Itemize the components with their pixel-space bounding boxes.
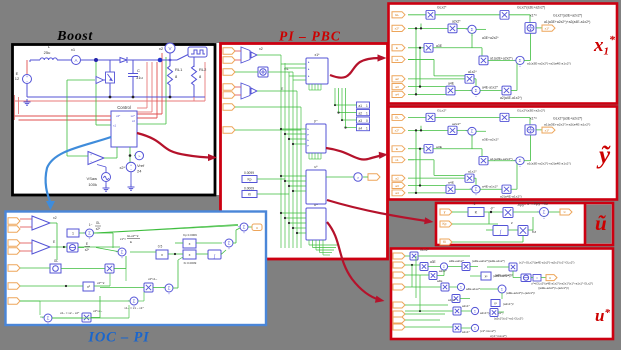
svg-text:u: u: [256, 226, 258, 230]
svg-text:0: 0: [366, 119, 368, 123]
svg-text:a2x2*: a2x2*: [439, 269, 448, 273]
svg-text:a4: a4: [395, 191, 399, 195]
svg-text:+: +: [130, 164, 132, 168]
svg-text:GLx2*^2: GLx2*^2: [127, 234, 139, 238]
svg-text:Vref: Vref: [137, 163, 145, 168]
svg-text:Σ: Σ: [474, 327, 476, 331]
svg-text:(a3E+a2x2*)²+(a2x1*)²: (a3E+a2x2*)²+(a2x1*)²: [506, 291, 535, 295]
svg-text:Σ: Σ: [519, 58, 522, 63]
svg-text:+: +: [513, 58, 515, 62]
svg-text:RL1: RL1: [175, 67, 183, 72]
svg-text:Control: Control: [117, 105, 131, 110]
svg-text:0.0009: 0.0009: [244, 187, 254, 191]
svg-text:0.5: 0.5: [158, 245, 163, 249]
svg-text:a2(a4E-a1x2*): a2(a4E-a1x2*): [500, 96, 522, 100]
svg-text:a1x1*: a1x1*: [462, 330, 471, 334]
svg-text:a2: a2: [359, 112, 363, 116]
svg-text:a1(a3E+a2x2*)+a2(a4E-a1x2*): a1(a3E+a2x2*)+a2(a4E-a1x2*): [527, 162, 571, 166]
svg-text:Σ: Σ: [475, 88, 478, 93]
svg-text:GL: GL: [96, 221, 100, 225]
svg-text:IOC – PI: IOC – PI: [87, 330, 150, 346]
svg-text:GLx2*(a3E+a2x2*): GLx2*(a3E+a2x2*): [553, 14, 582, 18]
svg-text:+: +: [47, 322, 49, 326]
svg-text:Σ: Σ: [519, 158, 522, 163]
svg-text:Kp 0.0009: Kp 0.0009: [183, 233, 197, 237]
svg-text:x2: x2: [132, 119, 136, 123]
svg-text:Ki: Ki: [443, 240, 446, 244]
svg-text:Kp: Kp: [443, 222, 447, 226]
svg-text:−: −: [90, 160, 92, 164]
svg-text:x: x: [189, 253, 191, 257]
svg-text:x1*: x1*: [314, 53, 320, 57]
svg-text:Σ: Σ: [471, 129, 474, 134]
svg-text:a2x2*: a2x2*: [452, 122, 461, 126]
svg-text:(a2x1*)²: (a2x1*)²: [503, 302, 514, 306]
svg-text:a3E: a3E: [436, 44, 443, 48]
svg-text:+: +: [42, 316, 44, 320]
svg-text:GLx2*: GLx2*: [437, 6, 447, 10]
svg-text:a4E: a4E: [437, 279, 442, 283]
svg-text:GLx2*(a3E+a2x2*): GLx2*(a3E+a2x2*): [517, 109, 545, 113]
svg-text:(x1*-GLx2*): (x1*-GLx2*): [480, 329, 496, 333]
svg-text:a2: a2: [395, 177, 399, 181]
svg-text:(a2x1*)(x1*+a1-GLx2*): (a2x1*)(x1*+a1-GLx2*): [494, 317, 523, 321]
svg-text:+: +: [519, 64, 521, 68]
svg-text:a1(a3E+a2x2*): a1(a3E+a2x2*): [490, 157, 513, 161]
svg-text:(a3E+a2x2*)²: (a3E+a2x2*)²: [495, 273, 513, 277]
svg-text:x2*: x2*: [85, 248, 90, 252]
svg-text:V: V: [168, 46, 171, 51]
svg-text:x2*x2~: x2*x2~: [93, 309, 103, 313]
svg-text:x2*: x2*: [395, 27, 400, 31]
svg-text:A: A: [74, 58, 77, 63]
svg-text:25u: 25u: [44, 50, 51, 55]
svg-text:Kz: Kz: [532, 230, 536, 234]
svg-text:+: +: [243, 231, 245, 235]
svg-text:a2x1*: a2x1*: [462, 304, 471, 308]
svg-text:u~: u~: [314, 203, 318, 207]
svg-text:Σ: Σ: [88, 231, 91, 236]
svg-text:x1*: x1*: [545, 27, 550, 31]
svg-text:a4E: a4E: [448, 181, 455, 185]
svg-text:a3E+a2x2*: a3E+a2x2*: [449, 259, 465, 263]
svg-text:Boost: Boost: [56, 29, 93, 44]
svg-text:a4E-a1x2*: a4E-a1x2*: [466, 287, 481, 291]
svg-text:x2*: x2*: [120, 166, 126, 170]
svg-text:Σ: Σ: [243, 225, 246, 230]
svg-text:x1*=: x1*=: [530, 116, 537, 120]
svg-text:x: x: [161, 253, 163, 257]
svg-text:x(x1*-GLx2*): x(x1*-GLx2*): [490, 334, 507, 338]
svg-text:a1: a1: [359, 104, 363, 108]
svg-text:Σ: Σ: [543, 210, 546, 215]
svg-text:GLx2*: GLx2*: [420, 248, 430, 252]
svg-text:1: 1: [366, 112, 368, 116]
svg-text:a2(a4E-a1x2*): a2(a4E-a1x2*): [500, 195, 522, 199]
svg-text:x2*: x2*: [96, 227, 101, 231]
svg-text:x2: x2: [53, 216, 57, 220]
svg-text:a2: a2: [395, 77, 399, 81]
svg-text:GLx2*: GLx2*: [437, 109, 447, 113]
svg-text:a1x2*: a1x2*: [468, 170, 477, 174]
svg-text:a1(a3E+a2x2*): a1(a3E+a2x2*): [490, 56, 513, 60]
svg-text:a4E-a1x2*: a4E-a1x2*: [482, 185, 499, 189]
svg-text:+: +: [469, 88, 471, 92]
svg-text:1−: 1−: [89, 223, 93, 227]
svg-text:=: =: [536, 277, 538, 281]
svg-text:a3E: a3E: [436, 145, 443, 149]
svg-text:a3E+a2x2*: a3E+a2x2*: [482, 36, 499, 40]
svg-text:a3E+a2x2*: a3E+a2x2*: [482, 138, 499, 142]
svg-text:ũ: ũ: [595, 211, 607, 235]
svg-text:u: u: [549, 276, 551, 280]
svg-text:GLx2*(a3E+a2x2*): GLx2*(a3E+a2x2*): [553, 116, 582, 120]
svg-text:a1(a3E+a2x2*)+a2(a4E-a1x2*): a1(a3E+a2x2*)+a2(a4E-a1x2*): [544, 20, 590, 24]
svg-text:+: +: [89, 237, 91, 241]
svg-text:+: +: [228, 247, 230, 251]
svg-text:Σ: Σ: [133, 299, 136, 304]
svg-text:+: +: [168, 292, 170, 296]
svg-text:a3: a3: [395, 85, 399, 89]
svg-text:Kp: Kp: [247, 177, 251, 181]
svg-text:x1: x1: [113, 124, 117, 128]
svg-text:Ki: Ki: [248, 192, 251, 196]
svg-text:Σ: Σ: [471, 27, 474, 32]
svg-text:a3: a3: [359, 119, 363, 123]
svg-text:x1~ = x1 − x1*: x1~ = x1 − x1*: [124, 306, 144, 310]
svg-text:GL: GL: [395, 13, 400, 17]
svg-text:x2~ = x2 − x2*: x2~ = x2 − x2*: [60, 311, 80, 315]
svg-text:a4E: a4E: [448, 82, 455, 86]
svg-text:x²: x²: [494, 301, 497, 305]
svg-text:x2*x1~: x2*x1~: [148, 277, 158, 281]
svg-text:12: 12: [15, 76, 20, 81]
svg-text:31u: 31u: [136, 75, 143, 80]
svg-text:PI – PBC: PI – PBC: [279, 29, 341, 44]
svg-text:E: E: [130, 240, 132, 244]
svg-text:0.0099: 0.0099: [244, 171, 254, 175]
svg-text:1: 1: [366, 104, 368, 108]
svg-text:+: +: [223, 241, 225, 245]
svg-text:-1: -1: [472, 202, 475, 206]
svg-text:1: 1: [366, 127, 368, 131]
svg-text:24: 24: [137, 169, 142, 174]
svg-text:Σ: Σ: [228, 241, 231, 246]
svg-text:((a3E+a2x2*)²+(a2x1*)²): ((a3E+a2x2*)²+(a2x1*)²): [538, 286, 569, 290]
svg-text:GL: GL: [54, 259, 58, 263]
svg-text:z: z: [511, 221, 513, 225]
svg-text:Σ: Σ: [474, 310, 476, 314]
svg-text:-Kpy~: -Kpy~: [517, 203, 526, 207]
svg-text:u*=(GLx2*(a4E-a1x2*)+a2x1*(x1*: u*=(GLx2*(a4E-a1x2*)+a2x1*(x1*+a1x1*-GLx…: [531, 282, 593, 286]
svg-text:E: E: [86, 242, 88, 246]
svg-text:x2*^2: x2*^2: [97, 281, 105, 285]
svg-text:u: u: [564, 210, 566, 214]
svg-text:100k: 100k: [88, 182, 97, 187]
svg-text:+: +: [83, 231, 85, 235]
svg-text:u~=-Kpy~+Kz: u~=-Kpy~+Kz: [527, 202, 548, 206]
svg-text:−: −: [130, 168, 132, 172]
svg-text:a3E: a3E: [430, 260, 436, 264]
svg-text:+: +: [121, 256, 123, 260]
svg-text:+: +: [128, 299, 130, 303]
svg-text:E: E: [396, 46, 398, 50]
svg-text:RL2: RL2: [199, 67, 207, 72]
svg-text:x1*=: x1*=: [120, 237, 126, 241]
svg-text:a1(a3E+a2x2*)+a2(a4E-a1x2*): a1(a3E+a2x2*)+a2(a4E-a1x2*): [527, 61, 571, 65]
svg-text:a2x2*: a2x2*: [452, 20, 461, 24]
svg-text:Σ: Σ: [168, 286, 171, 291]
svg-text:a1x2*: a1x2*: [448, 298, 457, 302]
svg-text:C: C: [137, 68, 140, 73]
svg-text:Σ: Σ: [121, 250, 124, 255]
svg-text:x1: x1: [395, 58, 399, 62]
svg-text:GLx2*(a3E+a2x2*): GLx2*(a3E+a2x2*): [517, 6, 545, 10]
svg-text:VSaw: VSaw: [87, 176, 98, 181]
svg-text:(a3E+a2x2*)(a4E-a1x2*): (a3E+a2x2*)(a4E-a1x2*): [472, 259, 505, 263]
svg-text:Σ: Σ: [475, 187, 478, 192]
svg-text:a4: a4: [395, 93, 399, 97]
svg-text:+: +: [465, 27, 467, 31]
svg-text:x1: x1: [395, 158, 399, 162]
svg-text:E: E: [396, 147, 398, 151]
svg-text:-y~: -y~: [490, 206, 495, 210]
svg-text:a4: a4: [359, 127, 363, 131]
svg-text:+: +: [475, 94, 477, 98]
svg-text:Σ: Σ: [460, 286, 462, 290]
svg-text:1: 1: [72, 231, 74, 235]
svg-text:+: +: [26, 75, 28, 79]
svg-text:a1(a3E+a2x2*)+a2(a4E-a1x2*): a1(a3E+a2x2*)+a2(a4E-a1x2*): [544, 122, 590, 126]
svg-text:(x1*+GLx2*)(a4E-a1x2*)+a2x1*(x: (x1*+GLx2*)(a4E-a1x2*)+a2x1*(x1*-GLx2*): [519, 261, 574, 265]
svg-text:x2: x2: [259, 47, 263, 51]
svg-text:−: −: [26, 80, 28, 84]
svg-text:ỹ: ỹ: [596, 142, 611, 169]
svg-text:x: x: [189, 242, 191, 246]
svg-text:Ki 0.0009: Ki 0.0009: [184, 261, 197, 265]
svg-text:K: K: [475, 209, 478, 214]
svg-text:a1x2*: a1x2*: [468, 70, 477, 74]
svg-text:a3: a3: [395, 184, 399, 188]
svg-text:+: +: [537, 210, 539, 214]
svg-text:a4E-a1x2*: a4E-a1x2*: [482, 86, 498, 90]
svg-text:+: +: [90, 153, 92, 157]
svg-text:GL: GL: [395, 116, 400, 120]
svg-text:x1*=: x1*=: [530, 14, 537, 18]
svg-text:y~: y~: [314, 119, 318, 123]
svg-text:Σ: Σ: [47, 316, 50, 321]
